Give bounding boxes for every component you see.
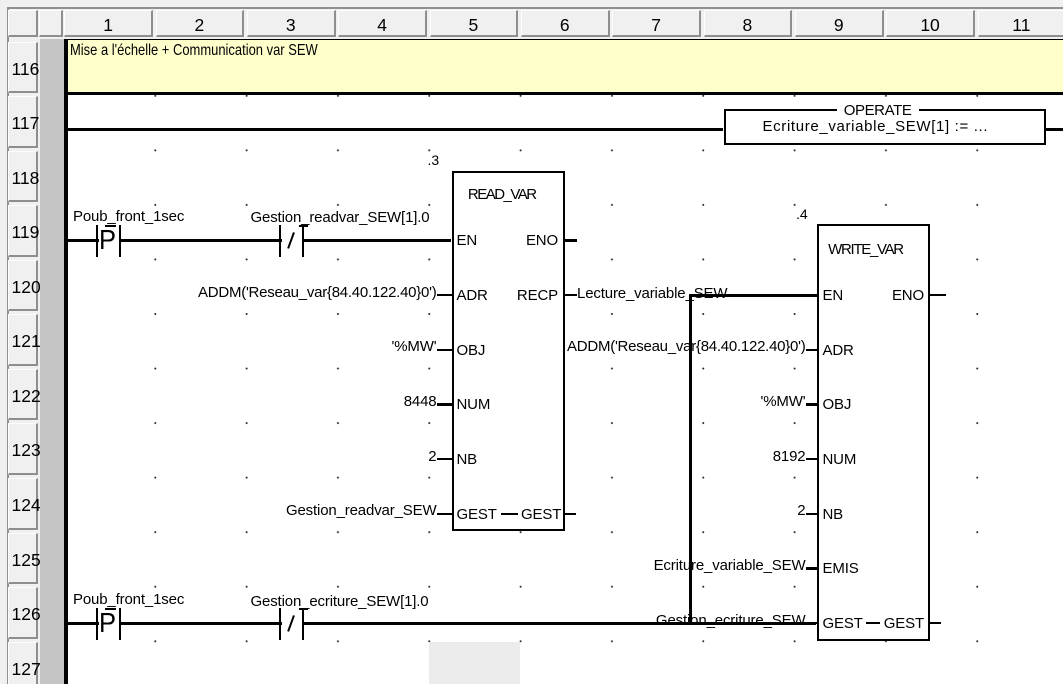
column header 4 bbox=[338, 10, 427, 38]
wire param dash OBJ WRITE_VAR bbox=[806, 403, 817, 406]
gray margin bar bbox=[40, 39, 65, 684]
WRITE_VAR param OBJ value bbox=[506, 394, 806, 409]
wire rung 117 right stub bbox=[1046, 128, 1063, 131]
label .3 bbox=[428, 153, 440, 167]
operate expression bbox=[763, 119, 989, 134]
READ_VAR title bbox=[452, 187, 566, 202]
wire param dash ADR WRITE_VAR bbox=[806, 349, 817, 352]
wire ENO stub WRITE_VAR bbox=[930, 294, 946, 297]
READ_VAR pin label OBJ bbox=[457, 343, 486, 358]
contact X3 label bbox=[73, 592, 184, 607]
column header 2 bbox=[156, 10, 245, 38]
column header 9 bbox=[795, 10, 884, 38]
wire rung 119 bbox=[68, 239, 452, 242]
row header 123 bbox=[8, 423, 38, 475]
row header 116 bbox=[8, 42, 38, 94]
wire ENO stub READ_VAR bbox=[565, 239, 577, 242]
WRITE_VAR title bbox=[817, 242, 930, 257]
wire param dash GEST READ_VAR bbox=[437, 513, 452, 516]
row header 120 bbox=[8, 260, 38, 312]
WRITE_VAR param NUM value bbox=[506, 449, 806, 464]
WRITE_VAR param EMIS value bbox=[506, 558, 806, 573]
narrow header cell bbox=[39, 10, 64, 38]
wire param dash NUM WRITE_VAR bbox=[806, 458, 817, 461]
wire GEST out stub WRITE_VAR bbox=[930, 622, 941, 625]
wire GEST out stub READ_VAR bbox=[565, 513, 576, 516]
READ_VAR param NUM value bbox=[137, 394, 437, 409]
WRITE_VAR param ADR value bbox=[506, 339, 806, 354]
operate title bbox=[837, 105, 919, 118]
READ_VAR param GEST value bbox=[137, 503, 437, 518]
contact X3 (P) bars bbox=[96, 608, 122, 640]
comment text bbox=[70, 43, 318, 59]
column header 7 bbox=[612, 10, 701, 38]
comment block bbox=[68, 39, 1063, 95]
wire RECP-row to WRITE_VAR EN horizontal bbox=[689, 294, 817, 297]
operate block U1 box bbox=[724, 109, 1046, 145]
column header 8 bbox=[704, 10, 793, 38]
wire param dash NUM READ_VAR bbox=[437, 403, 452, 406]
wire param dash ADR READ_VAR bbox=[437, 294, 452, 297]
WRITE_VAR pin label NB bbox=[823, 507, 844, 522]
WRITE_VAR pin label ADR bbox=[823, 343, 854, 358]
WRITE_VAR param NB value bbox=[506, 503, 806, 518]
wire rung 126 bbox=[68, 622, 817, 625]
READ_VAR pin label GEST out bbox=[521, 507, 561, 522]
wire param dash NB READ_VAR bbox=[437, 458, 452, 461]
WRITE_VAR param GEST value bbox=[506, 613, 806, 628]
WRITE_VAR pin label ENO bbox=[824, 288, 924, 303]
function block READ_VAR box bbox=[452, 171, 566, 532]
READ_VAR param NB value bbox=[137, 449, 437, 464]
corner header cell bbox=[8, 10, 38, 38]
READ_VAR pin label NUM bbox=[457, 397, 491, 412]
row header 118 bbox=[8, 151, 38, 203]
function block WRITE_VAR box bbox=[817, 224, 930, 641]
contact X2 label bbox=[251, 210, 430, 225]
row header 121 bbox=[8, 314, 38, 366]
wire RECP stub bbox=[565, 294, 577, 297]
frame left line bbox=[7, 7, 9, 684]
left power rail bbox=[64, 39, 68, 684]
wire rung 117 left bbox=[68, 128, 724, 131]
column header 5 bbox=[430, 10, 519, 38]
row header 124 bbox=[8, 478, 38, 530]
row header 126 bbox=[8, 587, 38, 639]
WRITE_VAR pin label GEST bbox=[823, 616, 863, 631]
wire param dash GEST WRITE_VAR bbox=[806, 622, 817, 625]
contact X1 label bbox=[73, 209, 184, 224]
READ_VAR GEST through-connection dash bbox=[501, 513, 518, 516]
WRITE_VAR pin label EMIS bbox=[823, 561, 859, 576]
WRITE_VAR pin label OBJ bbox=[823, 397, 852, 412]
RECP output variable label bbox=[577, 286, 727, 301]
wire param dash EMIS WRITE_VAR bbox=[806, 567, 817, 570]
contact X1 (P) bars bbox=[96, 225, 122, 257]
READ_VAR pin label ADR bbox=[457, 288, 488, 303]
READ_VAR param OBJ value bbox=[137, 339, 437, 354]
frame top line bbox=[7, 7, 1063, 9]
READ_VAR pin label RECP bbox=[458, 288, 558, 303]
label .4 bbox=[796, 207, 808, 221]
column header 6 bbox=[521, 10, 610, 38]
READ_VAR pin label GEST bbox=[457, 507, 497, 522]
column header 1 bbox=[64, 10, 153, 38]
column header 11 bbox=[978, 10, 1063, 38]
WRITE_VAR pin label GEST out bbox=[824, 616, 924, 631]
row header 125 bbox=[8, 533, 38, 585]
WRITE_VAR GEST through-connection dash bbox=[866, 622, 880, 625]
READ_VAR pin label NB bbox=[457, 452, 478, 467]
row header 117 bbox=[8, 96, 38, 148]
wire param dash OBJ READ_VAR bbox=[437, 349, 452, 352]
WRITE_VAR pin label NUM bbox=[823, 452, 857, 467]
contact X2 (NC) bars bbox=[279, 225, 305, 257]
row header 127 bbox=[8, 642, 38, 684]
contact X4 label bbox=[251, 594, 429, 609]
READ_VAR param ADR value bbox=[137, 285, 437, 300]
WRITE_VAR pin label EN bbox=[823, 288, 844, 303]
wire param dash NB WRITE_VAR bbox=[806, 513, 817, 516]
READ_VAR pin label EN bbox=[457, 233, 478, 248]
row header 119 bbox=[8, 205, 38, 257]
wire vertical link x690 bbox=[689, 294, 692, 625]
contact X4 (NC) bars bbox=[279, 608, 305, 640]
READ_VAR pin label ENO bbox=[458, 233, 558, 248]
column header 10 bbox=[886, 10, 975, 38]
row header 122 bbox=[8, 369, 38, 421]
selected cell highlight bbox=[429, 642, 520, 684]
column header 3 bbox=[247, 10, 336, 38]
